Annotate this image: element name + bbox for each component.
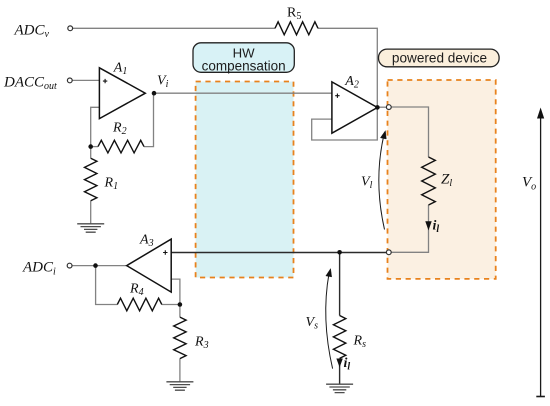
node ADCi junction: [93, 263, 98, 268]
resistor R4: [117, 298, 162, 311]
arrow Vl (curved): [379, 136, 385, 230]
node A2 output: [375, 105, 380, 110]
wire terminal to Zl top: [391, 107, 428, 157]
arrow il near Zl: [426, 222, 432, 230]
wire R4 stubs: [96, 266, 180, 305]
resistor Zl (load): [422, 157, 436, 205]
wire A1 feedback: [91, 107, 100, 146]
node Vi: [152, 91, 157, 96]
resistor Rs: [333, 316, 345, 359]
wire Zl bottom to lower terminal: [391, 205, 428, 252]
arrow Vo: [540, 112, 542, 397]
terminal ADCv: [68, 26, 73, 31]
wire R2 left stub: [91, 146, 98, 148]
terminal DACCout: [67, 78, 72, 83]
op-amp A2: [332, 82, 378, 133]
terminal ADCi: [67, 263, 72, 268]
node sense junction: [337, 250, 342, 255]
arrow Vs (curved): [326, 274, 333, 369]
wire A3 output to ADCi: [72, 265, 127, 267]
wire R1 stubs: [90, 147, 92, 224]
op-amp A1: [99, 68, 145, 119]
powered device dashed region: [388, 80, 496, 279]
op-amp A3: [127, 239, 172, 292]
wire junction down to Rs: [339, 252, 341, 315]
wire DACCout to A1: [72, 79, 100, 81]
ground under Rs: [326, 384, 353, 392]
terminal device upper: [386, 105, 391, 110]
wire A2 feedback: [312, 108, 378, 141]
node R2/R1 junction: [88, 144, 93, 149]
resistor R3: [174, 317, 186, 359]
wire Vi to A2 input: [154, 92, 332, 94]
resistor R1: [85, 158, 97, 201]
wire R3 stubs: [179, 305, 181, 382]
label box HW compensation: [193, 43, 294, 73]
wire ADCv to R5: [73, 27, 276, 29]
svg-text:ADCi: ADCi: [22, 260, 56, 278]
terminal device lower: [386, 250, 391, 255]
wire R2 right to Vi node: [144, 93, 154, 146]
ground under R3: [166, 382, 193, 390]
resistor R2: [98, 140, 144, 153]
ground under R1: [77, 224, 104, 232]
wire R5 to A2 output (node): [318, 28, 377, 107]
label box powered device: [379, 49, 500, 67]
svg-text:powered device: powered device: [392, 51, 487, 66]
wire A2 output to terminal: [377, 106, 386, 108]
wire sense line A3 to device terminal: [171, 252, 386, 254]
HW compensation dashed region: [196, 82, 294, 278]
svg-text:ADCv: ADCv: [14, 22, 50, 40]
node R4/R3 junction: [178, 302, 183, 307]
arrow il below Rs: [337, 359, 343, 367]
wire Rs bottom to ground: [339, 358, 341, 384]
svg-text:compensation: compensation: [202, 58, 286, 73]
resistor R5: [275, 22, 318, 35]
wire A3 feedback: [171, 279, 180, 304]
